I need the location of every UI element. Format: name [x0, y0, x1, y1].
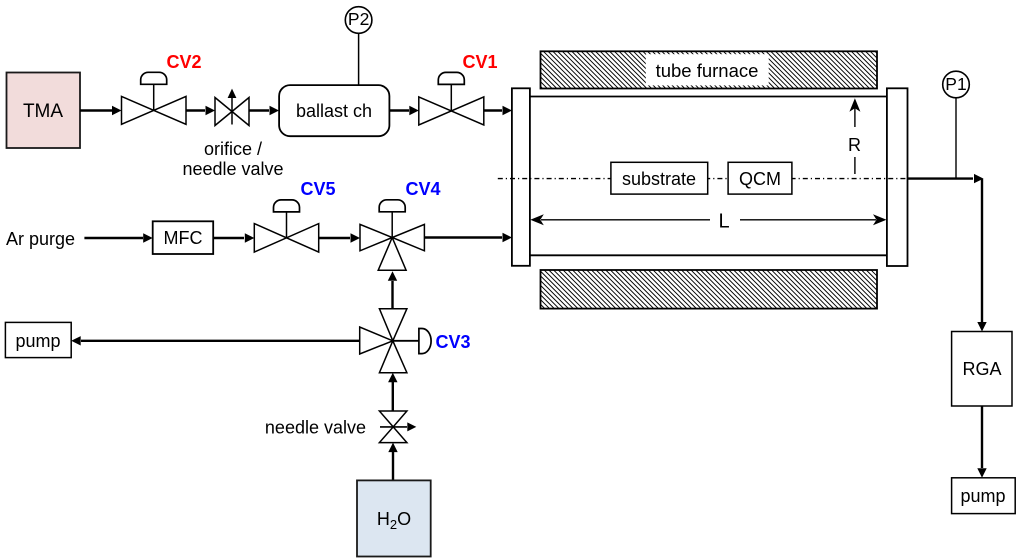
wire TMA to CV2	[80, 106, 122, 115]
valve CV5	[254, 200, 318, 252]
svg-text:TMA: TMA	[23, 101, 63, 122]
MFC box	[153, 221, 214, 254]
exhaust wire tube to corner (arrow right)	[908, 174, 984, 183]
RGA box	[952, 332, 1012, 407]
svg-text:QCM: QCM	[739, 169, 781, 189]
svg-text:P1: P1	[945, 74, 966, 94]
valve CV1	[419, 72, 484, 125]
ballast chamber	[279, 85, 389, 136]
tube furnace top heater (hatched)	[541, 51, 878, 88]
wire orifice valve to ballast chamber	[249, 106, 279, 115]
valve CV3 (3-way with cap)	[360, 309, 431, 373]
svg-text:P2: P2	[348, 9, 369, 29]
dimension R (arrow up to wall, label, segment to axis)	[848, 98, 861, 174]
exhaust wire corner down to RGA (arrow down)	[977, 179, 986, 332]
wire CV3 up to CV4 (arrow up)	[388, 271, 397, 309]
tube furnace label	[646, 54, 769, 85]
svg-text:substrate: substrate	[622, 169, 696, 189]
pump box (left)	[5, 322, 71, 357]
wire H2O up to needle valve (arrow up)	[388, 443, 397, 481]
tube furnace bottom heater (hatched)	[541, 270, 878, 309]
wire CV1 to tube inlet	[484, 106, 512, 115]
tube top wall	[530, 96, 887, 98]
wire CV2 to orifice valve	[186, 106, 215, 115]
svg-text:RGA: RGA	[962, 359, 1001, 379]
gauge P1	[943, 71, 970, 178]
gauge P2	[345, 7, 372, 85]
svg-text:MFC: MFC	[164, 228, 203, 248]
svg-text:R: R	[848, 135, 861, 155]
wire MFC to CV5	[213, 233, 254, 242]
svg-text:needle valve: needle valve	[182, 159, 283, 179]
svg-text:CV4: CV4	[405, 179, 440, 199]
needle valve (H2O line)	[379, 411, 416, 443]
tube bottom wall	[530, 254, 887, 256]
wire CV3 to pump (arrow left)	[71, 336, 360, 345]
svg-text:CV3: CV3	[435, 332, 470, 352]
tube axis (dash-dot centerline)	[498, 178, 912, 180]
wire Ar purge to MFC	[84, 233, 152, 242]
wire ballast to CV1	[389, 106, 418, 115]
tube right flange	[887, 88, 908, 266]
svg-text:pump: pump	[15, 331, 60, 351]
svg-text:CV2: CV2	[166, 52, 201, 72]
svg-text:orifice /: orifice /	[204, 139, 262, 159]
valve CV2	[122, 72, 187, 124]
wire RGA to pump (arrow down)	[977, 406, 986, 478]
svg-text:needle valve: needle valve	[265, 418, 366, 438]
H2O source box	[357, 480, 431, 556]
substrate box	[611, 162, 708, 194]
TMA source box	[7, 73, 81, 149]
orifice / needle valve symbol	[215, 89, 249, 126]
label orifice / needle valve	[182, 139, 283, 179]
svg-text:CV1: CV1	[462, 52, 497, 72]
svg-text:Ar purge: Ar purge	[6, 229, 75, 249]
svg-text:tube furnace: tube furnace	[656, 60, 759, 81]
dimension L (double arrow with label)	[530, 211, 886, 233]
tube left flange	[512, 88, 530, 265]
wire CV4 to tube inlet	[424, 233, 512, 242]
svg-text:pump: pump	[960, 486, 1005, 506]
wire CV5 to CV4	[319, 233, 360, 242]
svg-text:ballast ch: ballast ch	[296, 101, 372, 121]
QCM box	[728, 162, 792, 194]
pump box (right)	[952, 478, 1016, 514]
wire needle valve up to CV3 (arrow up)	[388, 373, 397, 411]
valve CV4 (3-way)	[360, 200, 424, 270]
svg-text:L: L	[718, 211, 729, 233]
svg-text:CV5: CV5	[300, 179, 335, 199]
